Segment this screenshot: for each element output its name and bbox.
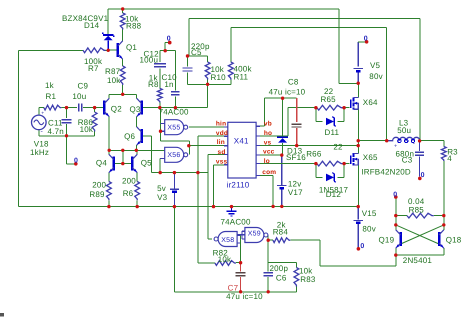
svg-text:R65: R65 (321, 95, 337, 104)
svg-text:0: 0 (364, 35, 368, 42)
svg-text:R87: R87 (105, 67, 121, 76)
svg-text:4: 4 (447, 154, 452, 163)
svg-text:0: 0 (360, 243, 364, 250)
svg-text:R83: R83 (300, 275, 316, 284)
svg-text:V15: V15 (362, 209, 377, 218)
svg-text:10u: 10u (72, 92, 86, 101)
svg-text:Q6: Q6 (124, 132, 135, 141)
svg-text:X55: X55 (167, 124, 180, 131)
svg-text:IRFB42N20D: IRFB42N20D (361, 167, 411, 176)
svg-text:C9: C9 (78, 82, 89, 91)
svg-text:200: 200 (122, 176, 136, 185)
svg-text:ho: ho (264, 130, 272, 137)
svg-text:X59: X59 (248, 231, 261, 238)
svg-text:C5: C5 (191, 48, 202, 57)
svg-text:lo: lo (264, 158, 270, 165)
svg-text:2N5401: 2N5401 (403, 256, 433, 265)
svg-text:R85: R85 (409, 206, 425, 215)
svg-text:R11: R11 (234, 73, 249, 82)
svg-text:200: 200 (92, 181, 106, 190)
svg-text:0: 0 (74, 158, 78, 165)
svg-text:V18: V18 (34, 139, 49, 148)
svg-text:10k: 10k (218, 255, 232, 264)
svg-text:10k: 10k (107, 76, 121, 85)
svg-text:Q5: Q5 (141, 159, 152, 168)
svg-text:47u ic=10: 47u ic=10 (269, 88, 306, 97)
svg-text:80v: 80v (369, 72, 383, 81)
svg-text:V17: V17 (288, 188, 303, 197)
svg-text:R84: R84 (273, 228, 289, 237)
svg-text:1kHz: 1kHz (30, 148, 49, 157)
svg-text:0: 0 (167, 36, 171, 43)
svg-text:vcc: vcc (263, 149, 275, 156)
svg-text:100u: 100u (140, 56, 159, 65)
svg-text:1k: 1k (45, 81, 55, 90)
svg-text:R10: R10 (211, 73, 227, 82)
svg-text:V5: V5 (370, 61, 381, 70)
svg-text:R66: R66 (306, 150, 322, 159)
svg-text:ir2110: ir2110 (227, 181, 250, 190)
svg-text:D14: D14 (84, 21, 100, 30)
svg-text:vdd: vdd (216, 130, 228, 137)
svg-text:X65: X65 (363, 153, 378, 162)
svg-text:5v: 5v (157, 184, 166, 193)
svg-text:hin: hin (216, 121, 226, 128)
svg-text:com: com (262, 169, 276, 176)
svg-text:vss: vss (216, 159, 228, 166)
svg-text:10k: 10k (80, 125, 94, 134)
svg-text:Q3: Q3 (130, 105, 141, 114)
svg-text:C8: C8 (288, 78, 299, 87)
svg-text:V3: V3 (157, 193, 168, 202)
svg-text:X41: X41 (234, 137, 249, 146)
svg-text:0: 0 (393, 191, 397, 198)
svg-text:R1: R1 (46, 92, 57, 101)
svg-text:Q4: Q4 (96, 159, 107, 168)
svg-text:Q18: Q18 (446, 236, 462, 245)
svg-text:R8: R8 (148, 80, 159, 89)
svg-text:R88: R88 (126, 22, 142, 31)
svg-text:22: 22 (333, 143, 343, 152)
svg-text:Q19: Q19 (379, 236, 395, 245)
svg-text:C6: C6 (276, 273, 287, 282)
svg-text:vb: vb (264, 121, 272, 128)
svg-text:R7: R7 (88, 64, 99, 73)
svg-text:SF16: SF16 (286, 153, 306, 162)
svg-text:D11: D11 (325, 128, 340, 137)
svg-text:vs: vs (264, 140, 272, 147)
svg-text:C3: C3 (402, 156, 413, 165)
svg-text:50u: 50u (397, 126, 411, 135)
svg-text:+: + (41, 111, 44, 117)
svg-text:200p: 200p (270, 264, 289, 273)
svg-text:47u ic=10: 47u ic=10 (226, 292, 263, 301)
svg-text:R89: R89 (89, 190, 105, 199)
svg-text:sd: sd (218, 149, 226, 156)
svg-text:1n: 1n (164, 80, 173, 89)
svg-text:4.7n: 4.7n (48, 127, 64, 136)
svg-text:lin: lin (217, 139, 225, 146)
svg-text:D12: D12 (326, 190, 342, 199)
svg-text:X64: X64 (363, 98, 378, 107)
svg-text:0: 0 (421, 172, 425, 179)
svg-text:Q2: Q2 (111, 105, 122, 114)
svg-text:C7: C7 (228, 283, 239, 292)
svg-text:74AC00: 74AC00 (159, 108, 189, 117)
svg-text:R6: R6 (123, 189, 134, 198)
svg-text:80v: 80v (362, 225, 376, 234)
svg-text:74AC00: 74AC00 (221, 218, 251, 227)
svg-text:Q1: Q1 (126, 43, 137, 52)
svg-text:X56: X56 (167, 152, 180, 159)
svg-text:X58: X58 (221, 237, 234, 244)
